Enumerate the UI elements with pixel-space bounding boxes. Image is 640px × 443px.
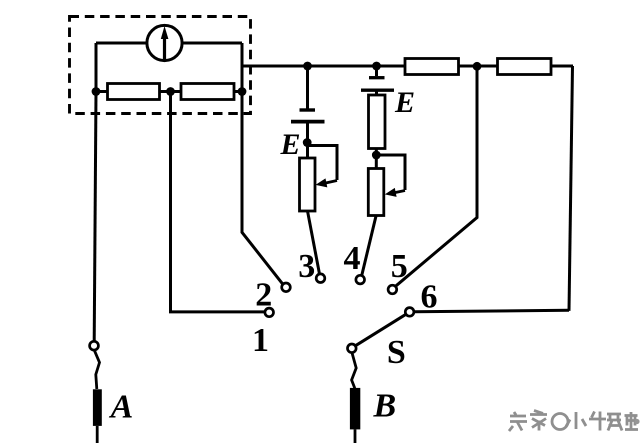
terminal 1 [265, 308, 274, 317]
wire left horizontal to galvanometer [96, 42, 147, 45]
junction dot branch1 top [303, 62, 312, 71]
svg-text:6: 6 [421, 279, 438, 316]
junction dot middle [166, 87, 175, 96]
wire loop right vertical [241, 43, 244, 92]
wire right loop to terminal 2 [242, 92, 283, 285]
svg-text:B: B [372, 388, 396, 425]
switch S pivot circle [348, 344, 357, 353]
resistor R1 (in box, left) [108, 84, 160, 100]
watermark bullet [634, 419, 639, 424]
rheostat RP2 wiper arrow [385, 188, 405, 197]
rheostat RP1 body [300, 158, 316, 211]
wire battery E1 to rheostat [306, 123, 309, 158]
svg-text:S: S [387, 334, 406, 371]
junction dot branch1 mid [303, 138, 312, 147]
wire junction R3R4 to terminal 5 [396, 66, 477, 286]
probe A tip wire [96, 426, 99, 443]
terminal 4 [356, 275, 365, 284]
svg-text:1: 1 [252, 322, 269, 359]
svg-text:4: 4 [344, 240, 361, 277]
terminal 2 [282, 283, 291, 292]
resistor R2 (in box, right) [181, 84, 234, 100]
rheostat RP1 wiper arrow [316, 178, 338, 187]
wire loop left vertical [95, 43, 98, 92]
probe B body [350, 388, 360, 430]
battery E1 long plate [291, 120, 325, 124]
junction dot branch2 top [372, 62, 381, 71]
watermark 头条@小牛物理 [509, 411, 638, 432]
rheostat RP2 wiper wire [376, 155, 405, 190]
switch S blade [355, 314, 406, 346]
resistor R3 (top, left of dot) [405, 59, 459, 75]
terminal 5 [388, 285, 397, 294]
rheostat RP1 wiper wire [307, 146, 337, 181]
probe A lead kink [94, 350, 99, 389]
junction dot between R3 R4 [473, 62, 482, 71]
svg-text:5: 5 [391, 248, 408, 285]
battery E2 short plate [369, 76, 385, 79]
resistor R4 (top, right of dot) [498, 59, 552, 75]
wire right side vertical [569, 66, 573, 311]
wire rheostat RP2 to terminal 4 [362, 216, 376, 275]
wire terminal6 horizontal [414, 310, 569, 312]
battery E2 internal resistance box [369, 95, 386, 149]
probe B lead kink [352, 353, 357, 389]
wire branch1 stub from top bus [306, 66, 309, 109]
galvanometer G [147, 25, 182, 60]
wire middle dot to terminal 1 [171, 92, 265, 312]
battery E2 long plate [361, 88, 394, 91]
dashed box (meter enclosure) [70, 17, 251, 114]
probe B tip wire [354, 429, 357, 443]
probe A body [93, 389, 102, 426]
terminal 3 [316, 274, 325, 283]
svg-text:3: 3 [298, 248, 315, 285]
wire resistor row segment left [96, 90, 108, 93]
battery E1 short plate [300, 108, 316, 111]
junction dot branch2 mid [372, 151, 381, 160]
wire E2 box to rheostat [375, 149, 378, 169]
wire rheostat RP1 to terminal 3 [308, 211, 320, 274]
terminal 6 [405, 308, 414, 317]
top bus wire [242, 65, 573, 68]
junction dot right [238, 87, 247, 96]
svg-text:E: E [394, 86, 415, 119]
svg-text:A: A [109, 389, 134, 426]
wire battery E2 plate to box [375, 91, 378, 95]
svg-text:E: E [279, 128, 300, 161]
rheostat RP2 body [368, 169, 384, 216]
wire resistor row segment right [234, 90, 242, 93]
junction dot left [92, 87, 101, 96]
wire resistor row segment middle [160, 90, 182, 93]
wire branch2 stub from top bus [375, 66, 378, 76]
svg-text:2: 2 [255, 277, 272, 314]
wire right horizontal from galvanometer [182, 42, 242, 45]
wire left vertical to probe A [94, 92, 96, 342]
probe A pivot circle [90, 341, 99, 350]
